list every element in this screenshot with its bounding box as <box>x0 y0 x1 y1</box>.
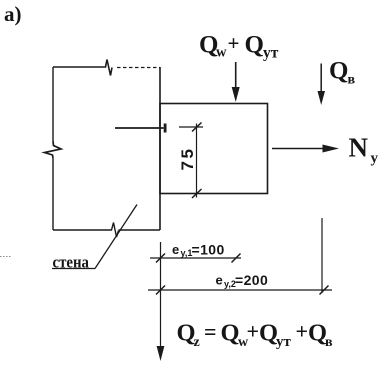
svg-text:ут: ут <box>263 45 279 62</box>
force arrow Ny <box>272 148 324 150</box>
dimension 75 line <box>196 124 198 198</box>
dimension ey1 tick right <box>232 254 241 263</box>
formula Qz = Qw + Qut + Qv <box>177 319 334 351</box>
dimension 75 tick bottom <box>192 189 202 198</box>
wall left edge lower <box>52 158 54 230</box>
svg-text:Q: Q <box>221 320 240 347</box>
extension line right x322 <box>321 218 323 293</box>
svg-text:ут: ут <box>276 334 292 350</box>
svg-text:=200: =200 <box>235 272 268 288</box>
wall top edge dashed <box>117 67 160 69</box>
dimension ey2 tick right <box>320 286 329 295</box>
force label Qw+Qut <box>199 31 279 62</box>
svg-text:+: + <box>296 319 309 344</box>
svg-text:a): a) <box>4 2 22 26</box>
svg-text:y: y <box>371 151 379 167</box>
svg-text:w: w <box>216 45 227 61</box>
wall bottom edge left <box>53 229 109 231</box>
wall left edge break mark <box>45 141 62 158</box>
dimension ey2 tick left <box>156 286 165 295</box>
svg-text:=100: =100 <box>192 242 225 258</box>
dimension ey1 line <box>150 257 241 259</box>
wall top edge solid <box>53 66 103 68</box>
svg-text:=: = <box>204 319 217 344</box>
wall bottom edge right <box>119 229 161 231</box>
svg-text:+: + <box>247 319 260 344</box>
anchor end plate <box>164 124 167 133</box>
svg-text:e: e <box>216 273 223 288</box>
dimension 75 tick top <box>192 123 202 132</box>
force arrow Qw+Qut <box>235 62 237 89</box>
force arrow Qz head <box>157 346 165 361</box>
leader underline <box>52 268 95 270</box>
dimension 75 stub <box>179 126 203 128</box>
svg-text:в: в <box>325 335 333 350</box>
dimension ey1 tick left <box>156 254 165 263</box>
svg-text:z: z <box>194 335 200 350</box>
svg-text:Q: Q <box>245 32 264 59</box>
scan artifact dashes left margin <box>0 256 11 258</box>
anchor line <box>115 127 164 129</box>
svg-text:75: 75 <box>178 147 197 171</box>
svg-text:в: в <box>348 73 356 88</box>
dimension ey2 line <box>148 289 332 291</box>
force arrow Qv <box>320 64 322 94</box>
wall left edge upper <box>52 67 54 141</box>
wall top edge break mark <box>103 60 112 76</box>
svg-text:Q: Q <box>329 58 348 85</box>
extension line left x160 <box>160 242 162 347</box>
svg-text:N: N <box>349 133 369 163</box>
svg-text:e: e <box>172 242 179 257</box>
wall right edge <box>159 67 161 230</box>
leader diagonal <box>95 205 137 269</box>
console plate rectangle <box>160 104 268 194</box>
force label Ny <box>349 133 379 167</box>
svg-text:+: + <box>228 31 240 55</box>
force label Qv <box>329 58 356 88</box>
wall bottom edge break mark <box>109 223 119 238</box>
dimension ey1 label <box>172 242 225 259</box>
dimension ey2 label <box>216 272 269 289</box>
